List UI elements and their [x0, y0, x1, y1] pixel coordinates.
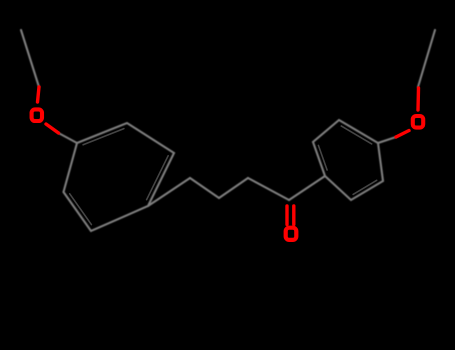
ring left inner double bond 2	[147, 156, 169, 200]
atom O right methoxy	[413, 116, 423, 128]
wire chain C2	[190, 178, 219, 198]
atom O carbonyl	[286, 228, 297, 240]
wire methyl-right CH3	[418, 30, 435, 87]
ring right inner double bond 1	[318, 145, 327, 170]
wire chain C1	[148, 178, 190, 206]
benzene ring left	[64, 123, 175, 231]
wire O-left to ring gray part	[59, 133, 78, 143]
atom O left methoxy	[32, 109, 42, 121]
red bond left O to ring	[46, 124, 59, 133]
ring right inner double bond 3	[353, 180, 377, 194]
carbonyl double bond C=O red lines	[285, 206, 288, 225]
wire chain to carbonyl C	[248, 178, 289, 200]
red bond stub above left O	[38, 87, 40, 102]
wire chain C3	[219, 178, 248, 198]
wire methyl-left CH3	[21, 30, 39, 87]
ring right inner double bond 2	[341, 126, 371, 144]
ring left inner double bond 3	[70, 194, 92, 225]
red bond stub above right O	[416, 88, 420, 110]
ring left inner double bond 1	[83, 129, 124, 145]
red bond right O to ring	[396, 131, 409, 138]
wire O-right gray to ring	[378, 137, 396, 143]
benzene ring right	[313, 120, 383, 200]
wire carbonyl C to ring right	[289, 176, 325, 200]
